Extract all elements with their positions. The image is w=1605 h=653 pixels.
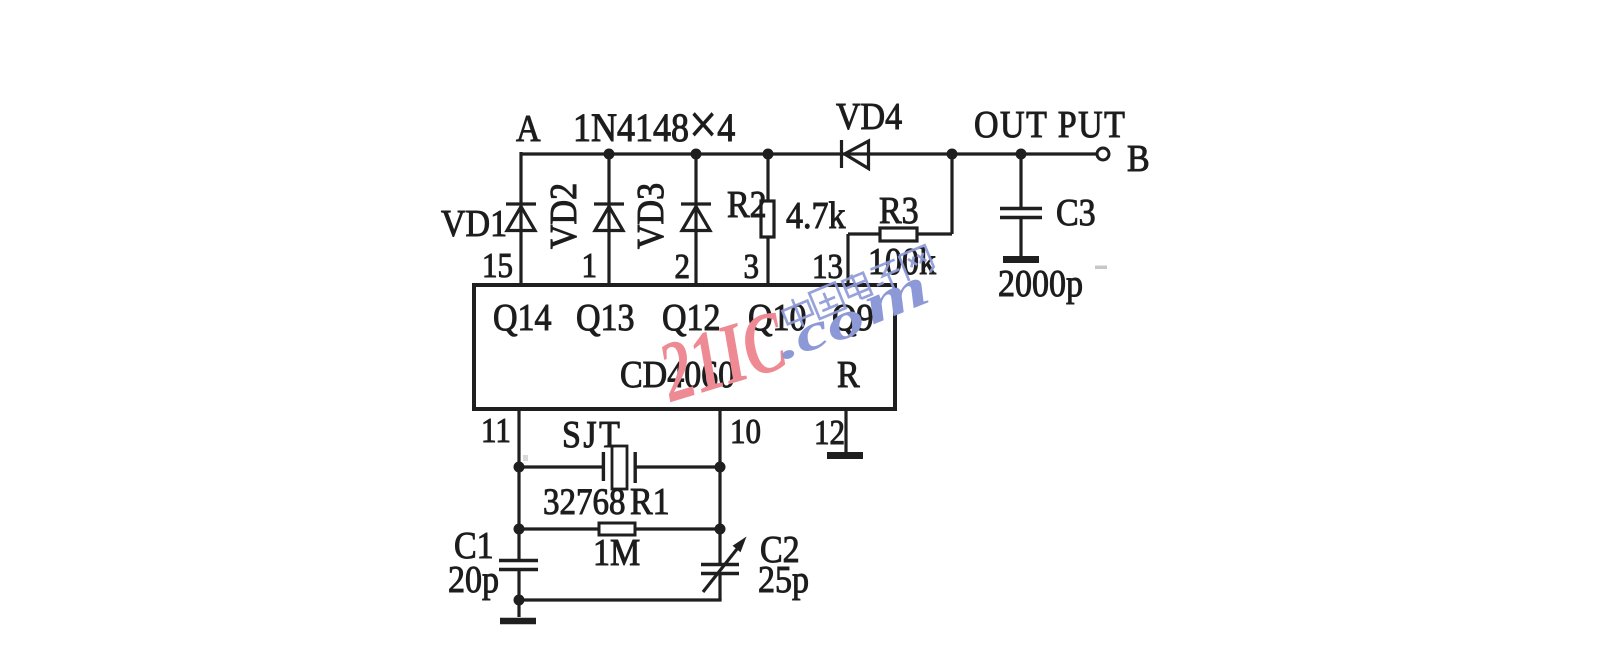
svg-text:13: 13	[812, 248, 843, 286]
svg-text:OUT PUT: OUT PUT	[974, 103, 1126, 145]
svg-text:15: 15	[482, 247, 513, 285]
svg-text:Q14: Q14	[493, 296, 552, 338]
svg-text:12: 12	[814, 414, 845, 452]
svg-text:2000p: 2000p	[998, 262, 1083, 304]
svg-text:11: 11	[481, 412, 511, 450]
svg-text:Q13: Q13	[576, 296, 635, 338]
svg-text:3: 3	[744, 248, 759, 286]
svg-text:R1: R1	[630, 480, 670, 522]
svg-text:R: R	[837, 353, 861, 395]
svg-text:VD2: VD2	[542, 183, 584, 249]
svg-text:SJT: SJT	[562, 413, 622, 455]
svg-text:1: 1	[582, 247, 597, 285]
svg-text:VD3: VD3	[629, 183, 671, 249]
svg-text:R3: R3	[879, 189, 919, 231]
svg-text:R2: R2	[727, 183, 767, 225]
svg-text:20p: 20p	[448, 558, 499, 600]
svg-text:1M: 1M	[593, 531, 640, 573]
svg-text:2: 2	[675, 248, 690, 286]
svg-text:4.7k: 4.7k	[786, 194, 846, 236]
svg-text:A: A	[516, 107, 541, 149]
svg-text:C3: C3	[1056, 191, 1096, 233]
svg-text:VD4: VD4	[836, 95, 902, 137]
svg-text:1N4148×4: 1N4148×4	[573, 95, 735, 156]
svg-text:32768: 32768	[543, 481, 625, 522]
svg-text:25p: 25p	[758, 558, 809, 600]
svg-text:VD1: VD1	[441, 202, 507, 244]
svg-text:10: 10	[730, 413, 761, 451]
svg-text:B: B	[1127, 137, 1150, 179]
